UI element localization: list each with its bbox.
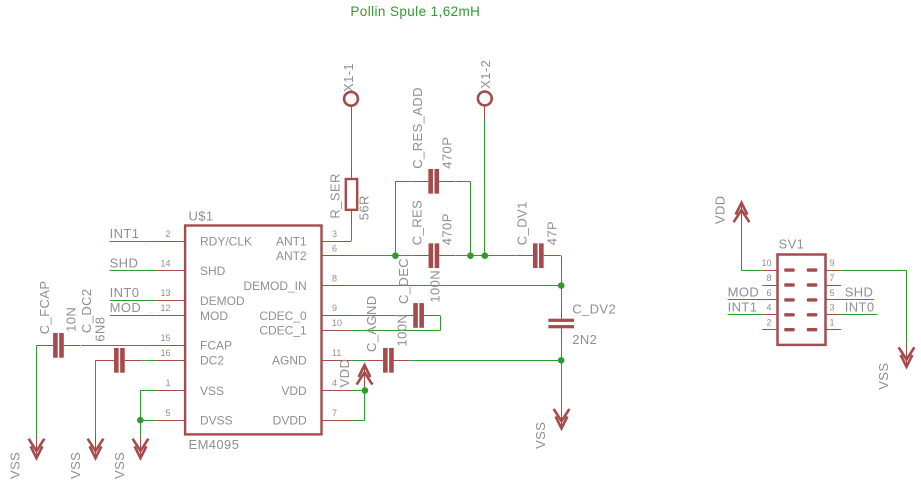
svg-text:14: 14: [160, 258, 170, 268]
SV1 pin 5 stub: [826, 299, 842, 301]
svg-text:1: 1: [165, 378, 170, 388]
pin 5 stub: [155, 420, 185, 422]
SV1 pin 2 stub: [762, 329, 777, 331]
resistor R_SER: [351, 164, 353, 179]
wire X1-2 to ANT2: [484, 120, 486, 256]
svg-text:MOD: MOD: [728, 285, 760, 300]
pin 8 stub: [322, 285, 352, 287]
junction AGND-DV2: [558, 357, 565, 364]
svg-text:16: 16: [160, 348, 170, 358]
ground VSS 2: [95, 435, 97, 455]
capacitor C_FCAP: [53, 333, 58, 358]
SV1 pad right 9: [807, 268, 818, 271]
pin 4 stub: [322, 390, 352, 392]
svg-text:U$1: U$1: [189, 208, 214, 223]
wire C_FCAP to VSS: [36, 345, 38, 435]
SV1 pad left 4: [784, 313, 795, 316]
svg-text:6: 6: [766, 288, 771, 298]
svg-text:VSS: VSS: [112, 452, 127, 479]
pin 11 stub: [322, 360, 352, 362]
SV1 pad right 7: [807, 283, 818, 286]
svg-text:470P: 470P: [439, 137, 454, 169]
svg-text:SHD: SHD: [110, 255, 139, 270]
svg-text:5: 5: [165, 408, 170, 418]
wire pin5 DVSS: [140, 420, 155, 422]
pin 3 stub: [322, 241, 352, 243]
wire AGND left: [351, 360, 366, 362]
svg-text:ANT1: ANT1: [276, 234, 307, 248]
svg-text:4: 4: [766, 303, 771, 313]
svg-text:15: 15: [160, 333, 170, 343]
svg-text:DC2: DC2: [200, 354, 224, 368]
svg-text:56R: 56R: [357, 195, 372, 220]
svg-text:C_FCAP: C_FCAP: [37, 281, 52, 335]
svg-text:7: 7: [830, 273, 835, 283]
svg-text:INT1: INT1: [110, 226, 140, 241]
SV1 pad right 3: [807, 313, 818, 316]
svg-text:SHD: SHD: [845, 285, 874, 300]
svg-text:6: 6: [332, 243, 337, 253]
svg-text:10: 10: [761, 258, 771, 268]
SV1 pad left 8: [784, 283, 795, 286]
svg-text:2: 2: [165, 229, 170, 239]
svg-text:MOD: MOD: [200, 309, 228, 323]
wire VSS vertical: [140, 391, 142, 435]
pin 16 stub: [155, 360, 185, 362]
svg-text:3: 3: [830, 303, 835, 313]
svg-text:470P: 470P: [440, 213, 455, 245]
pin 7 stub: [322, 420, 352, 422]
capacitor C_RES_ADD: [428, 169, 433, 194]
wire RESADD right vertical: [470, 181, 472, 255]
wire pin4 VDD: [351, 390, 365, 392]
wire RESADD left vertical: [395, 181, 397, 255]
pin X1-1 stub: [351, 106, 353, 120]
power VDD 1: [364, 368, 366, 388]
wire CDEC right vertical: [440, 315, 442, 330]
SV1 pin 10 stub: [762, 270, 777, 272]
SV1 pad left 2: [784, 328, 795, 331]
svg-text:8: 8: [766, 273, 771, 283]
svg-text:2N2: 2N2: [572, 332, 597, 347]
SV1 pin 9 stub: [826, 270, 842, 272]
svg-text:C_RES_ADD: C_RES_ADD: [410, 87, 425, 169]
svg-text:9: 9: [830, 258, 835, 268]
svg-text:DVSS: DVSS: [200, 414, 233, 428]
svg-text:INT0: INT0: [110, 285, 140, 300]
ground VSS 5: [906, 344, 908, 364]
junction DEMODIN-DV2: [558, 282, 565, 289]
wire DEMOD_IN: [351, 285, 561, 287]
svg-text:CDEC_0: CDEC_0: [259, 309, 307, 323]
svg-text:VSS: VSS: [876, 363, 891, 390]
pin 13 stub: [155, 300, 185, 302]
wire net MOD: [110, 315, 156, 317]
SV1 pad right 1: [807, 328, 818, 331]
wire SHD at SV1: [841, 299, 874, 301]
svg-text:9: 9: [332, 303, 337, 313]
pin 6 stub: [322, 255, 352, 257]
svg-text:ANT2: ANT2: [276, 249, 307, 263]
IC U$1 EM4095 box: [185, 226, 321, 435]
pin 1 stub: [155, 390, 185, 392]
svg-text:1: 1: [830, 318, 835, 328]
connector pad X1-1: [344, 92, 358, 106]
wire C_DC2 to VSS: [95, 360, 97, 435]
SV1 pin 4 stub: [762, 314, 777, 316]
wire R_SER to ANT1: [351, 225, 353, 242]
svg-text:DEMOD_IN: DEMOD_IN: [243, 279, 306, 293]
svg-text:10: 10: [332, 318, 342, 328]
svg-text:EM4095: EM4095: [189, 437, 240, 452]
svg-text:SV1: SV1: [779, 237, 805, 252]
wire INT0 at SV1: [841, 314, 877, 316]
svg-text:47P: 47P: [545, 221, 560, 245]
svg-text:VDD: VDD: [337, 359, 352, 388]
svg-text:VDD: VDD: [713, 195, 728, 224]
svg-text:VSS: VSS: [68, 452, 83, 479]
pin 14 stub: [155, 270, 185, 272]
pin 10 stub: [322, 330, 352, 332]
svg-text:C_DV2: C_DV2: [572, 302, 616, 317]
svg-text:3: 3: [332, 229, 337, 239]
capacitor C_DC2: [114, 348, 119, 373]
wire RESADD top right: [456, 181, 471, 183]
wire DV2 bottom: [561, 340, 563, 360]
SV1 pin 8 stub: [762, 285, 777, 287]
wire ANT2 left: [351, 255, 412, 257]
pin 2 stub: [155, 241, 185, 243]
svg-text:12: 12: [160, 303, 170, 313]
junction VSS-DVSS: [137, 417, 144, 424]
wire net INT1: [110, 241, 156, 243]
wire INT1 at SV1: [728, 314, 763, 316]
ground VSS 3: [140, 435, 142, 455]
svg-text:X1-1: X1-1: [341, 63, 356, 92]
wire C_DC2 corner: [95, 360, 98, 362]
svg-text:100N: 100N: [427, 270, 442, 303]
wire X1-1 to R_SER: [351, 120, 353, 164]
SV1 pin 6 stub: [762, 299, 777, 301]
wire RESADD top left: [395, 181, 411, 183]
wire C_DV1 corner down: [559, 255, 562, 257]
pin 9 stub: [322, 315, 352, 317]
svg-text:5: 5: [830, 288, 835, 298]
svg-text:8: 8: [332, 273, 337, 283]
wire pin9 to VSS: [841, 270, 907, 272]
svg-text:VSS: VSS: [7, 452, 22, 479]
svg-text:100N: 100N: [395, 314, 410, 347]
svg-text:SHD: SHD: [200, 264, 226, 278]
capacitor C_DEC: [413, 303, 418, 328]
SV1 pin 7 stub: [826, 285, 842, 287]
SV1 pad left 6: [784, 298, 795, 301]
wire DV2 top: [561, 286, 563, 308]
wire DC2 net: [141, 360, 155, 362]
svg-text:DVDD: DVDD: [273, 414, 307, 428]
svg-text:X1-2: X1-2: [478, 60, 493, 89]
svg-text:R_SER: R_SER: [327, 173, 342, 218]
svg-text:2: 2: [766, 318, 771, 328]
svg-text:13: 13: [160, 288, 170, 298]
SV1 pad right 5: [807, 298, 818, 301]
power VDD 2: [741, 206, 743, 226]
pin 15 stub: [155, 345, 185, 347]
svg-text:DEMOD: DEMOD: [200, 294, 245, 308]
wire FCAP net: [81, 345, 156, 347]
SV1 pin 3 stub: [826, 314, 842, 316]
svg-text:FCAP: FCAP: [200, 339, 232, 353]
wire net SHD: [110, 270, 156, 272]
wire AGND to VSS: [561, 360, 563, 405]
svg-text:7: 7: [332, 408, 337, 418]
ground VSS 4: [561, 405, 563, 425]
svg-text:11: 11: [332, 348, 341, 358]
junction ANT2-X12: [482, 252, 489, 259]
svg-text:VSS: VSS: [200, 384, 224, 398]
wire net INT0: [110, 300, 156, 302]
wire pin10 to VDD: [741, 270, 762, 272]
svg-text:VDD: VDD: [281, 384, 307, 398]
wire VDD vertical: [364, 391, 366, 421]
ground VSS 1: [36, 435, 38, 455]
wire AGND right: [410, 360, 561, 362]
wire pin1 VSS: [140, 390, 155, 392]
junction VDD: [362, 387, 369, 394]
svg-text:INT1: INT1: [728, 299, 758, 314]
connector pad X1-2: [478, 92, 492, 106]
svg-text:RDY/CLK: RDY/CLK: [200, 234, 252, 248]
svg-text:C_DV1: C_DV1: [515, 201, 530, 245]
svg-text:VSS: VSS: [533, 422, 548, 449]
svg-text:10N: 10N: [64, 307, 79, 332]
svg-text:INT0: INT0: [845, 299, 875, 314]
capacitor C_RES: [429, 243, 434, 268]
svg-text:C_RES: C_RES: [410, 200, 425, 245]
svg-text:MOD: MOD: [110, 300, 142, 315]
svg-text:AGND: AGND: [272, 354, 307, 368]
pin X1-2 stub: [484, 105, 486, 120]
svg-text:6N8: 6N8: [93, 317, 108, 342]
pin 12 stub: [155, 315, 185, 317]
wire MOD at SV1: [728, 299, 763, 301]
connector SV1 box: [778, 255, 826, 345]
wire pin7 DVDD: [351, 420, 365, 422]
capacitor C_DV2: [548, 319, 574, 322]
junction ANT2-RESADD: [467, 252, 474, 259]
wire ANT2 mid: [456, 255, 516, 257]
wire CDEC_0: [351, 315, 396, 317]
wire CDEC_1: [351, 330, 440, 332]
capacitor C_AGND: [383, 348, 388, 373]
svg-text:C_AGND: C_AGND: [364, 295, 379, 352]
SV1 pin 1 stub: [826, 329, 842, 331]
svg-text:Pollin Spule 1,62mH: Pollin Spule 1,62mH: [350, 4, 480, 19]
junction ANT2-RES: [392, 252, 399, 259]
capacitor C_DV1: [533, 243, 538, 268]
svg-text:C_DEC: C_DEC: [396, 258, 411, 304]
svg-text:CDEC_1: CDEC_1: [259, 324, 307, 338]
SV1 pad left 10: [784, 268, 795, 271]
